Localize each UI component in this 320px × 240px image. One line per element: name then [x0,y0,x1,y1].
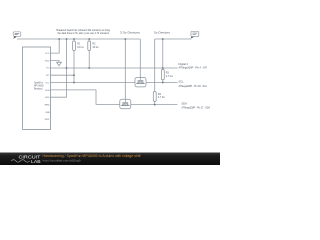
node label SDA [182,101,211,109]
svg-text:ATMega328P - Pin 28 - SCL: ATMega328P - Pin 28 - SCL [179,85,208,88]
wire 3.3v rail [17,38,140,40]
svg-text:ATMega328P - Pin 4 - INT: ATMega328P - Pin 4 - INT [179,67,208,70]
transistor Q1 [135,78,146,87]
node label Digital 2 [179,62,208,70]
note text [57,28,111,35]
svg-text:Breakout board has onboard 10k: Breakout board has onboard 10k resistors… [57,28,111,32]
svg-text:ATMega328P - Pin 27 - SDA: ATMega328P - Pin 27 - SDA [182,107,211,110]
svg-text:FSYNC: FSYNC [45,104,50,106]
wire SCL line [51,82,178,84]
wire Q2 gate from rail [124,39,126,100]
svg-text:http://circuitlab.com/c6j2vg9: http://circuitlab.com/c6j2vg9 [43,159,81,163]
wire pin2 to ground [51,60,60,62]
svg-text:SCL: SCL [179,80,185,84]
svg-text:4.7 kΩ: 4.7 kΩ [166,75,173,78]
wire R2 drop [88,51,90,69]
svg-text:the data lines to 5v, also I j: the data lines to 5v, also I just use 4.… [58,31,110,35]
junction dots [58,38,163,105]
svg-text:MPU-6050: MPU-6050 [34,86,44,88]
resistor R4 [153,92,165,102]
svg-text:SDA: SDA [45,89,50,92]
node label SCL [179,80,208,88]
svg-text:5v Devices: 5v Devices [154,31,171,35]
wire R4 bottom stub [154,101,156,104]
wire Q1 gate from rail end [139,39,141,78]
ground [57,62,62,65]
svg-text:10 kΩ: 10 kΩ [92,46,99,49]
resistor R3 [161,69,173,79]
svg-text:SparkFun: SparkFun [34,82,44,85]
svg-text:Digital 2: Digital 2 [179,62,189,66]
svg-text:3.3v Devices: 3.3v Devices [120,31,141,35]
wire pin1 to rail riser [51,39,60,53]
svg-text:BSS138: BSS138 [138,83,144,85]
wire pin6 staircase to SDA [51,90,97,105]
resistor R1 [73,39,84,51]
note icon 2 [191,31,199,38]
svg-text:CPOUT: CPOUT [45,119,51,121]
svg-text:VDD: VDD [45,53,50,55]
wire 5v rail [155,38,192,40]
footer bar [0,153,220,166]
svg-text:GND: GND [45,60,50,62]
IC U1 MPU6050 breakout [23,47,51,130]
wire 5v drop to node A and R3 [162,39,164,69]
wire R1 drop [73,51,75,83]
wire pin4 to R1 drop [51,74,75,76]
svg-text:BSS138: BSS138 [122,105,128,107]
wire SDA line [96,104,178,106]
svg-text:4.7 kΩ: 4.7 kΩ [158,96,165,99]
svg-text:LAB: LAB [31,159,41,164]
resistor R2 [88,39,99,51]
svg-text:Handsoaming / SparkFun MPU6050: Handsoaming / SparkFun MPU6050 to Arduin… [43,154,141,158]
svg-text:10 kΩ: 10 kΩ [77,46,84,49]
wire 5v rail corner down to R4 [154,39,156,92]
wire rail drop to pin7 [51,39,67,97]
wire node A (INT line) [51,67,178,69]
note icon 1 [13,32,21,39]
svg-text:CLKIN: CLKIN [45,112,50,114]
svg-text:Breakout: Breakout [34,88,43,91]
wire R3 bottom stub [162,80,164,83]
transistor Q2 [120,99,131,108]
svg-text:SDA: SDA [182,101,188,105]
svg-text:VIO: VIO [46,68,50,70]
pin labels [45,53,51,121]
